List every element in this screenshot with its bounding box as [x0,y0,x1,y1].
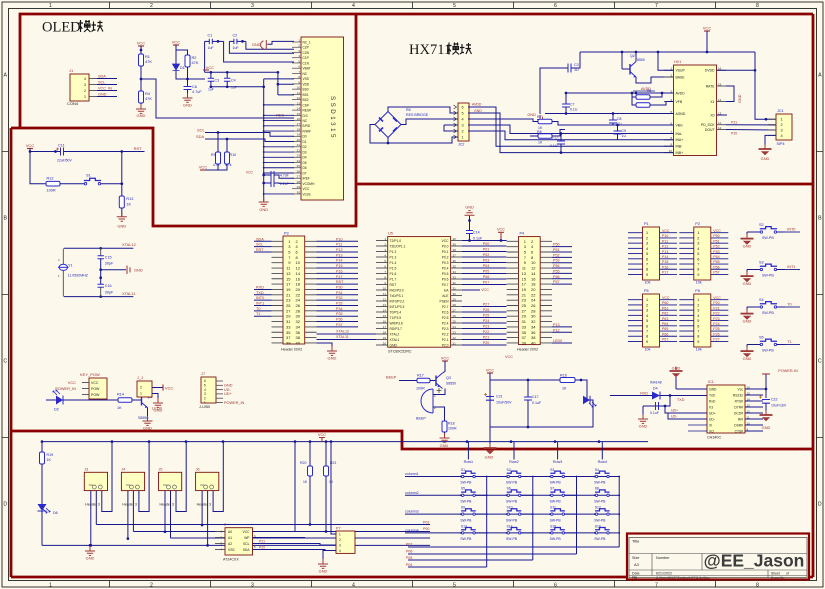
wires Q2 connections [635,52,637,62]
ground under Q1 [147,408,149,421]
keypad column vertical wires [486,477,488,568]
svg-text:35: 35 [453,264,457,268]
svg-text:1: 1 [49,3,52,9]
svg-text:13: 13 [522,271,527,276]
svg-text:P1.5: P1.5 [390,266,397,270]
title block background [628,535,809,580]
svg-text:P54: P54 [713,255,719,259]
svg-text:2: 2 [339,538,341,542]
svg-text:S9: S9 [461,506,465,510]
svg-text:P26: P26 [713,332,719,336]
svg-text:SW-PB: SW-PB [762,311,774,315]
svg-text:OLED: OLED [42,20,81,36]
capacitor C14 [469,234,471,241]
svg-text:P55: P55 [713,260,719,264]
transistor Q1 [141,395,143,406]
svg-text:22: 22 [531,292,536,297]
svg-text:P52: P52 [713,245,719,249]
svg-text:column1: column1 [405,472,419,476]
svg-text:VCC: VCC [441,356,450,361]
svg-text:BS2: BS2 [303,98,309,102]
svg-text:P06: P06 [483,275,490,279]
svg-text:INA-: INA- [676,132,683,136]
svg-text:P00: P00 [423,527,429,531]
svg-text:VCC: VCC [206,66,214,70]
svg-text:7: 7 [697,330,699,334]
svg-text:P03: P03 [423,521,429,525]
svg-text:T2EX/P1.1: T2EX/P1.1 [390,244,406,248]
resistor R18 [442,421,447,432]
svg-text:VCOMH: VCOMH [303,182,316,186]
svg-text:P51: P51 [553,248,560,252]
svg-text:S8: S8 [595,487,599,491]
svg-text:9: 9 [697,273,699,277]
svg-text:GND: GND [527,112,536,117]
svg-text:39: 39 [286,340,291,345]
svg-text:5: 5 [697,319,699,323]
wire led block rails [490,379,560,381]
svg-text:P66: P66 [662,332,668,336]
svg-text:1: 1 [84,95,86,99]
svg-text:P25: P25 [713,327,719,331]
svg-text:TxD: TxD [709,393,716,397]
LED D2 [46,399,56,401]
svg-text:18: 18 [383,330,387,334]
svg-text:S8550: S8550 [446,382,456,386]
svg-text:UD+: UD+ [709,411,716,415]
svg-text:0.1U: 0.1U [570,108,578,112]
svg-text:C14: C14 [473,231,480,235]
svg-text:1: 1 [697,231,699,235]
resistor R21 [325,442,327,466]
svg-text:S4: S4 [759,298,764,302]
ground under chip bus [263,200,265,201]
svg-text:4.7uF: 4.7uF [280,174,289,178]
svg-text:SDA: SDA [256,237,264,241]
svg-text:WR/P3.6: WR/P3.6 [390,321,403,325]
svg-text:P14: P14 [336,259,343,263]
svg-text:S3: S3 [759,260,764,264]
svg-text:P11: P11 [336,243,342,247]
svg-text:D4: D4 [653,387,658,391]
svg-text:RATE: RATE [706,84,716,88]
svg-text:23: 23 [453,330,457,334]
svg-text:VCC: VCC [303,187,310,191]
svg-text:Header 20X2: Header 20X2 [281,348,302,352]
red partition: left vertical divider [10,128,13,577]
svg-text:5: 5 [646,252,648,256]
svg-text:P22: P22 [713,312,719,316]
svg-text:P05: P05 [483,270,490,274]
keypad row feeds from rail [467,442,469,460]
wire VDD feed [277,72,279,95]
svg-text:P33: P33 [336,302,343,306]
svg-text:P54: P54 [553,264,560,268]
svg-text:27: 27 [286,308,291,313]
wires C2 [229,40,234,42]
svg-text:A1: A1 [228,536,232,540]
svg-text:1U: 1U [622,134,627,138]
svg-text:2: 2 [462,130,464,134]
wire P3 to U5 XTAL1 [317,339,377,341]
svg-text:SW-PB: SW-PB [762,349,774,353]
svg-text:RST: RST [390,283,397,287]
svg-text:P30: P30 [336,285,343,289]
svg-text:11: 11 [718,121,721,125]
svg-text:10uF/50V: 10uF/50V [496,401,512,405]
svg-text:10: 10 [296,260,301,265]
wire S3 to column line [565,476,577,478]
svg-text:P20: P20 [483,341,490,345]
svg-text:24: 24 [297,159,301,163]
svg-text:30: 30 [453,292,457,296]
svg-text:of: of [786,571,789,575]
svg-text:GND: GND [761,156,770,161]
svg-text:RI#: RI# [738,417,743,421]
svg-text:33: 33 [522,324,527,329]
wire ch340 pin1 gnd [676,388,707,390]
svg-text:PSEN: PSEN [440,299,450,303]
capacitor C3 hx [540,68,568,114]
svg-text:UD-: UD- [671,415,678,419]
wires IC1 right stubs [745,394,763,396]
wire PD_SCK to JC1 [726,124,776,126]
svg-text:P56: P56 [713,265,719,269]
svg-text:GND: GND [743,244,752,249]
svg-text:RxD: RxD [709,399,716,403]
svg-text:1K: 1K [47,458,52,462]
svg-text:31: 31 [286,319,291,324]
svg-text:38: 38 [531,335,536,340]
svg-text:12: 12 [718,126,722,130]
svg-text:1: 1 [339,532,341,536]
transistor Q3 [435,376,437,387]
wire RATE X1 loop [726,86,734,102]
svg-text:0.1U: 0.1U [550,144,558,148]
svg-text:6: 6 [462,106,464,110]
svg-text:P32: P32 [336,296,343,300]
svg-text:22: 22 [453,336,457,340]
svg-text:19: 19 [297,133,301,137]
connector J1 CON4 [70,74,89,101]
ground led block [489,442,491,447]
svg-text:11: 11 [383,292,386,296]
svg-text:35: 35 [522,330,527,335]
svg-text:SW-PB: SW-PB [762,236,774,240]
svg-text:6: 6 [697,324,699,328]
svg-text:VCC: VCC [26,143,35,148]
svg-text:BASE: BASE [676,75,686,79]
svg-text:R7: R7 [537,115,542,119]
svg-text:47K: 47K [145,59,152,64]
svg-text:A: A [3,73,7,79]
wire P7 row1 to rail [331,442,336,534]
svg-text:SCL: SCL [197,128,206,133]
svg-text:SDA: SDA [196,134,205,139]
capacitor C9 hx [617,125,619,131]
wire S16 to column line [609,532,619,534]
svg-text:0.1uF: 0.1uF [532,401,542,405]
svg-text:47K: 47K [192,60,199,65]
svg-text:9: 9 [646,340,648,344]
svg-text:1K: 1K [303,480,308,484]
svg-text:38: 38 [453,248,457,252]
svg-text:P6: P6 [695,289,700,293]
wire VSUP [658,52,674,70]
svg-text:20: 20 [296,287,301,292]
svg-text:1: 1 [781,117,783,122]
wires C1 [205,40,210,42]
svg-text:4.7uF: 4.7uF [192,90,202,94]
wire S15 to column line [565,532,577,534]
chip HX1 pins right [717,69,727,71]
svg-text:P0.5: P0.5 [442,272,449,276]
svg-text:C6: C6 [192,85,197,89]
svg-text:16: 16 [531,276,536,281]
ground under JC1 [765,135,776,148]
svg-text:3: 3 [462,124,464,128]
svg-text:T2/P1.0: T2/P1.0 [390,239,402,243]
svg-text:XO: XO [709,429,714,433]
svg-text:UD+: UD+ [224,392,232,396]
svg-text:P17: P17 [662,271,668,275]
svg-text:33: 33 [453,275,457,279]
svg-text:E/RD: E/RD [303,124,311,128]
svg-text:C15: C15 [105,256,112,260]
wires U2 right side [253,442,296,532]
svg-text:P1.2: P1.2 [390,250,397,254]
svg-text:UD-: UD- [709,417,715,421]
svg-text:HX711: HX711 [409,42,451,58]
svg-text:P0.0: P0.0 [442,244,449,248]
svg-text:INT0: INT0 [787,228,795,232]
svg-text:P2.7: P2.7 [442,305,449,309]
svg-text:SDA: SDA [243,548,251,552]
resistor R9 [216,152,221,164]
svg-text:8: 8 [756,583,759,589]
wire D6 to gnd bus [41,511,43,545]
svg-text:22: 22 [296,292,301,297]
wires U5 P0 bus to P4 [462,245,507,247]
svg-text:31: 31 [522,319,527,324]
svg-text:R6: R6 [406,108,411,112]
wires U5 P2 bus to P4 [462,306,507,308]
header P4 pin stubs [507,241,552,343]
svg-text:5: 5 [453,583,456,589]
MCU U5 pins left [376,240,388,242]
svg-text:9: 9 [697,340,699,344]
svg-text:P04: P04 [406,563,412,567]
svg-text:20: 20 [531,287,536,292]
svg-text:B: B [3,216,7,222]
svg-text:29: 29 [522,314,527,319]
svg-text:22: 22 [297,148,301,152]
svg-text:VCC: VCC [713,296,721,300]
svg-text:1K: 1K [538,141,543,145]
crystal Y1 [62,248,64,264]
connector XC2 [458,103,469,141]
wire S8 to column line [609,494,619,496]
svg-text:POW: POW [91,387,100,391]
svg-text:100R: 100R [448,427,457,431]
svg-text:VDD: VDD [303,82,310,86]
svg-text:3: 3 [781,128,783,133]
svg-text:X1: X1 [710,100,714,104]
svg-text:30pF: 30pF [105,291,114,295]
wires J6 hook to rail [213,442,223,512]
capacitor C6 [187,79,189,87]
svg-text:C: C [818,359,822,365]
svg-text:P21: P21 [483,336,490,340]
svg-text:BEEP: BEEP [386,375,397,380]
svg-text:D6: D6 [53,511,58,515]
svg-text:37: 37 [453,253,457,257]
svg-text:VCC: VCC [481,288,489,292]
svg-text:T0: T0 [256,307,260,311]
capacitor C16 [100,259,102,285]
svg-text:P2: P2 [695,222,700,226]
svg-text:20: 20 [297,138,301,142]
wire S12 to column line [609,513,619,515]
svg-text:P57: P57 [713,271,719,275]
capacitor C4 oled [226,72,228,78]
svg-text:VCC: VCC [91,381,99,385]
capacitor C17 [527,380,529,397]
svg-text:P0.3: P0.3 [442,261,449,265]
svg-text:D0: D0 [303,135,307,139]
svg-text:R/W#: R/W# [303,129,311,133]
svg-text:RXD: RXD [256,285,264,289]
svg-text:Header 3: Header 3 [197,503,211,507]
svg-text:S1: S1 [86,173,91,178]
svg-text:36: 36 [296,330,301,335]
svg-text:P4: P4 [520,232,525,236]
wires J6 pins down [201,491,203,525]
svg-text:D4: D4 [303,156,307,160]
svg-text:SW-PB: SW-PB [550,518,562,522]
svg-text:P12: P12 [553,328,560,332]
svg-text:D6: D6 [303,166,307,170]
oled ground bus [264,78,294,80]
svg-text:P1.6: P1.6 [390,272,397,276]
svg-text:15: 15 [383,314,387,318]
svg-text:GND: GND [743,356,752,361]
svg-text:SW-PB: SW-PB [594,481,606,485]
svg-text:SCL: SCL [98,81,105,85]
svg-text:INT1: INT1 [787,265,795,269]
svg-text:Y1: Y1 [68,264,73,268]
svg-text:S8550: S8550 [138,416,148,420]
svg-text:T0/P3.4: T0/P3.4 [390,310,402,314]
svg-text:3: 3 [697,242,699,246]
wire caps bottoms [211,86,264,88]
wire IC1 vcc to POWER_IN [745,388,766,390]
svg-text:VCC: VCC [505,355,513,359]
svg-text:P23: P23 [713,317,719,321]
svg-text:P57: P57 [553,280,560,284]
svg-text:Row3: Row3 [553,460,562,464]
svg-text:29: 29 [286,314,291,319]
svg-text:18: 18 [531,282,536,287]
svg-text:12: 12 [531,266,536,271]
svg-text:S7: S7 [550,487,554,491]
svg-text:S2: S2 [759,223,764,227]
svg-text:A3: A3 [634,562,639,567]
svg-text:GND: GND [259,207,268,212]
svg-text:P2.0: P2.0 [442,343,449,347]
svg-text:P0.4: P0.4 [442,266,449,270]
svg-text:29: 29 [453,297,457,301]
ground under S4 [746,307,748,313]
svg-text:GND: GND [183,103,192,108]
wire xtal top [64,247,133,249]
svg-text:8550: 8550 [637,58,645,62]
svg-text:1K: 1K [562,387,567,391]
svg-text:2: 2 [224,523,226,527]
svg-text:INT1: INT1 [256,302,264,306]
svg-text:P10: P10 [336,237,343,241]
svg-text:30: 30 [296,314,301,319]
svg-text:X0: X0 [710,113,714,117]
ground under C22 [765,411,767,416]
keypad row wires [405,476,608,478]
svg-text:C21: C21 [496,395,503,399]
red partition: OLED module box [11,14,813,226]
svg-text:1uF: 1uF [208,46,214,50]
svg-text:T0: T0 [787,303,791,307]
svg-text:GND: GND [709,387,717,391]
svg-text:6: 6 [646,257,648,261]
ground bottom box [89,545,91,550]
svg-text:DVDD: DVDD [705,69,715,73]
svg-text:P07: P07 [483,281,490,285]
svg-text:100R: 100R [47,189,56,193]
svg-text:RST: RST [336,280,344,284]
capacitor C8 vcomh [271,179,274,187]
svg-text:S3: S3 [550,468,554,472]
svg-text:XTAL2: XTAL2 [390,332,400,336]
load cell bridge JC2 [375,112,401,138]
svg-text:DOUT: DOUT [705,128,715,132]
svg-text:18: 18 [297,127,301,131]
svg-text:C4: C4 [231,79,236,83]
svg-text:GND: GND [224,384,233,388]
svg-text:P5: P5 [644,289,649,293]
svg-text:Header 3: Header 3 [160,503,174,507]
ground under C19 [642,406,644,418]
svg-text:4.7k: 4.7k [225,163,232,167]
svg-text:24: 24 [453,325,457,329]
svg-text:14: 14 [531,271,536,276]
svg-text:2: 2 [150,3,153,9]
svg-text:P53: P53 [553,259,560,263]
svg-text:P50: P50 [553,243,560,247]
wire C11 to RST [64,151,122,153]
svg-text:P14: P14 [662,255,668,259]
svg-text:DTR#: DTR# [734,405,743,409]
svg-text:WP: WP [244,536,250,540]
svg-text:10: 10 [297,86,301,90]
svg-text:GND: GND [440,443,449,448]
svg-text:AVDD: AVDD [472,103,482,107]
svg-text:POW: POW [91,393,100,397]
resistor R5b [632,97,636,105]
svg-text:CH340C: CH340C [707,436,721,440]
svg-text:P67: P67 [662,338,668,342]
svg-text:19: 19 [383,336,387,340]
LED D5 [583,395,587,400]
svg-text:VCC: VCC [442,239,450,243]
